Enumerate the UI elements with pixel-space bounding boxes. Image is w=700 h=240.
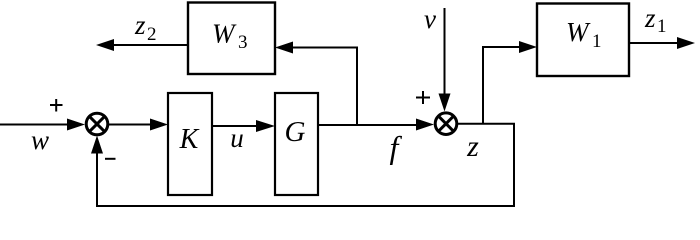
block W3 bbox=[188, 3, 275, 75]
svg-text:W: W bbox=[566, 17, 591, 47]
svg-text:z: z bbox=[466, 130, 479, 163]
wire f: G to S2 bbox=[318, 124, 418, 126]
plus sign at S1 bbox=[50, 99, 63, 112]
svg-text:W: W bbox=[212, 19, 237, 49]
block W1 bbox=[537, 4, 629, 77]
plus sign at S2 bbox=[416, 91, 430, 104]
summing junction S2 bbox=[435, 113, 457, 135]
wire z1 output bbox=[629, 42, 679, 44]
svg-text:z: z bbox=[644, 3, 656, 33]
svg-text:G: G bbox=[285, 116, 306, 148]
wire w input bbox=[0, 124, 70, 126]
svg-text:K: K bbox=[179, 124, 200, 155]
block K bbox=[168, 93, 212, 195]
wire S1 to K bbox=[109, 124, 153, 126]
svg-text:v: v bbox=[424, 4, 436, 34]
wire z2 output bbox=[112, 44, 188, 46]
block G bbox=[275, 93, 318, 195]
svg-text:3: 3 bbox=[238, 32, 248, 53]
svg-text:1: 1 bbox=[592, 31, 602, 52]
svg-text:u: u bbox=[230, 123, 244, 153]
wire v input bbox=[444, 8, 446, 97]
minus sign bbox=[105, 158, 116, 160]
wire branch f to W3 bbox=[291, 48, 357, 126]
svg-text:2: 2 bbox=[147, 24, 157, 45]
summing junction S1 bbox=[86, 113, 108, 135]
wire branch z to W1 bbox=[483, 47, 521, 124]
svg-text:w: w bbox=[31, 125, 49, 155]
svg-text:z: z bbox=[134, 10, 146, 40]
svg-text:1: 1 bbox=[657, 16, 667, 37]
wire z and feedback loop bbox=[97, 124, 514, 206]
wire u: K to G bbox=[212, 125, 259, 127]
